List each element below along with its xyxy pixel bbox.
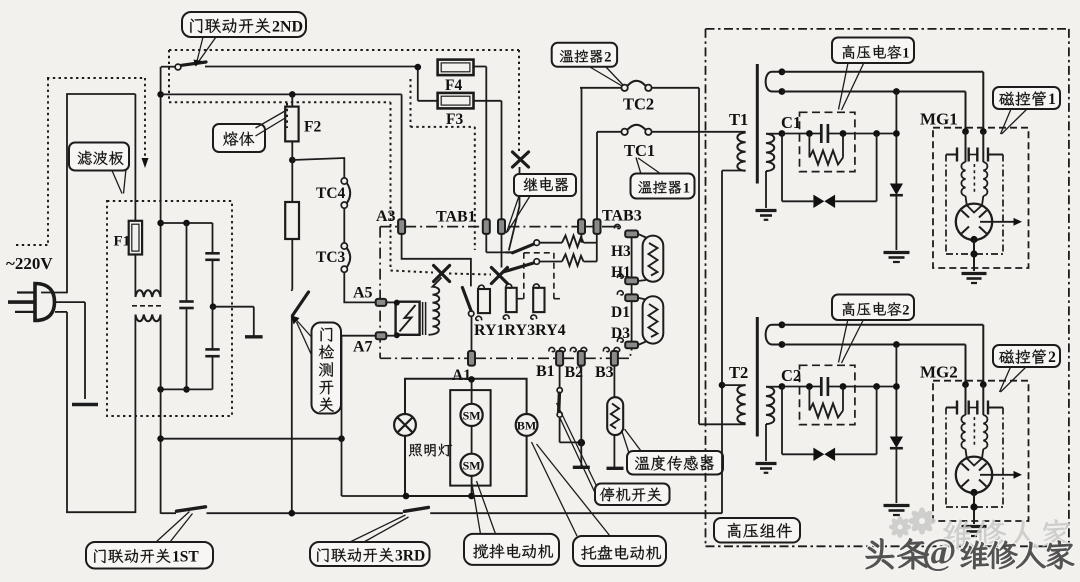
ground chassis plug <box>72 403 98 407</box>
node junction A7 return <box>338 435 345 442</box>
wire filter internal top <box>161 222 213 224</box>
stirrer motor inner box <box>450 390 490 486</box>
high voltage assembly box 高压组件 <box>705 29 707 546</box>
node junction door-detect rail <box>289 510 296 517</box>
svg-text:T1: T1 <box>729 110 748 129</box>
capacitor filter right bottom <box>212 307 214 350</box>
node junction box bottom mid <box>468 493 475 500</box>
svg-text:MG2: MG2 <box>920 363 958 382</box>
wire TAB3 to H3 <box>602 226 619 228</box>
svg-text:RY1RY3RY4: RY1RY3RY4 <box>474 322 566 339</box>
door interlock switch 3RD <box>405 507 429 511</box>
transformer T2 core <box>756 317 759 437</box>
dotted door linkage drop to relay connector <box>518 50 520 151</box>
label callout 门联动开关2ND <box>182 12 306 37</box>
wire filter midpoint to ground <box>213 306 254 308</box>
transformer T2 secondary winding <box>766 387 774 424</box>
bottom rail right <box>430 512 722 514</box>
filament heater coil MG2 <box>961 415 965 449</box>
magnetron MG1 anode <box>956 204 992 240</box>
wire A3 to interlock relay switch <box>402 234 471 287</box>
wire A3 feed from top <box>401 94 403 219</box>
bleed resistor C2 <box>808 387 810 411</box>
svg-text:TAB1: TAB1 <box>436 209 476 226</box>
label callout 继电器 relay <box>506 196 519 233</box>
node T2 secondary hot <box>779 383 786 390</box>
terminal pin A3 <box>398 219 405 234</box>
dashed box relay contact group <box>524 252 554 254</box>
fuse F3 <box>438 93 474 109</box>
wire SM2 to box bottom <box>471 476 473 496</box>
lamp 照明灯 <box>394 414 416 436</box>
svg-text:TAB3: TAB3 <box>602 208 642 225</box>
svg-text:A1: A1 <box>452 367 471 384</box>
terminal pin B1 <box>549 347 555 351</box>
svg-text:A5: A5 <box>353 285 373 302</box>
fuse F4 <box>438 60 474 76</box>
terminal pin B2 <box>570 347 576 351</box>
wire T1 secondary to ground <box>765 171 767 208</box>
node diode tap 1 <box>893 88 900 95</box>
svg-text:B2: B2 <box>565 364 584 381</box>
node junction F4 <box>417 67 419 101</box>
label callout 高压电容1 <box>839 63 849 110</box>
transformer T1 core <box>756 64 759 184</box>
arrow MG2 output <box>980 474 1014 476</box>
wire L top run <box>66 93 135 95</box>
plug prong N <box>15 311 36 313</box>
thermostat TC2 <box>621 85 627 91</box>
terminal lug H1 <box>617 274 623 278</box>
wire bottom U to filter <box>66 511 135 513</box>
wire filament second line MG1 <box>782 91 966 93</box>
wire F1 to choke <box>134 255 136 297</box>
heater loop D <box>643 296 664 343</box>
transformer T1 secondary winding <box>766 134 774 171</box>
door interlock switch 2ND <box>175 64 181 70</box>
relay RY4 <box>533 284 539 288</box>
svg-text:A3: A3 <box>376 208 396 225</box>
ground MG2 <box>962 525 987 528</box>
terminal pins TAB1 <box>483 219 490 234</box>
svg-text:H1: H1 <box>611 264 631 281</box>
terminal pin A1 <box>468 351 475 366</box>
wire cutout to door-detect switch <box>291 239 293 290</box>
label callout 温控器2 <box>552 43 617 67</box>
varistor bowtie 2 <box>781 387 783 455</box>
node coil top <box>394 300 400 306</box>
label callout 托盘电动机 tray motor <box>532 442 578 536</box>
ground HV diode 1 <box>884 251 910 254</box>
dotted door linkage top <box>169 49 519 51</box>
wire MG1 cathode to ground <box>970 236 977 243</box>
ground MG1 <box>962 272 987 275</box>
label callout 磁控管1 <box>1001 109 1012 134</box>
svg-text:B1: B1 <box>536 363 555 380</box>
label callout 温控器1 <box>636 158 641 175</box>
label callout 停机开关 stop switch <box>557 403 598 487</box>
wire plug N down <box>55 311 67 313</box>
dotted linkage drop to X1 <box>390 102 392 269</box>
plug prong E <box>8 300 36 304</box>
wire F2 branch to TC4 <box>292 158 344 178</box>
node diode tap 2 <box>893 341 900 348</box>
chain line terminal row A3-TAB1-TAB3 <box>380 226 398 228</box>
wire H1 to D1 <box>631 284 633 294</box>
capacitor filter right top <box>212 223 214 253</box>
watermark light flower icons <box>889 507 936 538</box>
node junction box bottom left <box>403 493 410 500</box>
terminal lug D1 <box>617 291 623 295</box>
wire rail up to transformers return <box>721 171 723 514</box>
relay contact lower blade <box>503 263 534 272</box>
svg-text:H3: H3 <box>611 243 631 260</box>
wire TC1 right to T1 primary <box>652 131 746 133</box>
wire filament top line MG2 <box>782 324 983 326</box>
svg-text:D1: D1 <box>611 304 630 321</box>
label callout 熔体 fuse <box>213 124 265 152</box>
svg-text:1: 1 <box>902 45 909 61</box>
filament heater coil MG1 <box>961 162 965 196</box>
dotted linkage branch <box>410 79 412 127</box>
transformer T2 primary winding <box>737 385 745 423</box>
HV capacitor C1 plates <box>820 124 823 143</box>
capacitor filter mid branch <box>183 220 190 227</box>
svg-text:F2: F2 <box>304 119 321 136</box>
wire stop switch to B2 line <box>560 441 582 443</box>
label callout 搅拌电动机 stirrer motor <box>472 481 481 534</box>
label callout 滤波板 filter board <box>69 143 129 171</box>
dotted linkage second run <box>169 101 391 103</box>
HV diode D1 <box>895 92 897 184</box>
filament winding loop T2 <box>766 325 782 345</box>
magnetron MG1 inner shield box <box>945 155 947 255</box>
node filter cap midpoint <box>210 303 217 310</box>
node T1 secondary hot <box>779 130 786 137</box>
wire F3 out to TAB1 <box>474 100 502 102</box>
watermark dark 头条@维修人家 <box>866 532 1074 573</box>
wire return to motor box corner <box>342 495 406 497</box>
wire plug to L rail <box>41 292 67 294</box>
svg-text:TC3: TC3 <box>316 249 346 266</box>
svg-text:TC1: TC1 <box>624 141 655 160</box>
wire plug earth <box>53 301 85 303</box>
wire T2 secondary to ground <box>765 424 767 461</box>
wire choke right up to switch 2ND <box>160 67 162 297</box>
wire TC3 to pin A5 <box>344 272 376 302</box>
wire MG2 cathode to ground <box>970 489 977 496</box>
node junction filter internal top <box>157 220 164 227</box>
svg-text:1ST: 1ST <box>172 549 199 566</box>
svg-text:C2: C2 <box>781 366 801 385</box>
node junction A1 top <box>468 376 475 383</box>
wire TC2 right to T2 primary <box>652 87 699 89</box>
magnetron MG2 outer box <box>933 381 1029 521</box>
svg-text:SM: SM <box>463 458 481 472</box>
connector X1 <box>434 266 450 282</box>
wire filter internal bottom <box>161 388 213 390</box>
dotted linkage X1 to X2 <box>449 274 491 275</box>
terminal pin B3 <box>603 347 609 351</box>
ground chassis B2 <box>573 466 590 469</box>
wire TAB1 pin2 to X2 <box>501 234 503 268</box>
stop switch <box>559 366 561 388</box>
stirrer motor SM1 <box>461 404 483 426</box>
fuse F1 <box>134 94 136 221</box>
wire H3 to H1 <box>631 237 633 277</box>
feedthrough capacitors MG1 <box>956 148 958 162</box>
wire T2 feed <box>722 384 746 386</box>
temperature sensor <box>613 366 615 398</box>
wire D3 to chain <box>631 348 633 350</box>
wire to pin A1 <box>471 316 473 351</box>
magnetron MG2 filament terminals <box>962 381 969 388</box>
chain line down A5 A7 <box>379 227 381 359</box>
dotted mains lead-in line <box>16 244 48 246</box>
thermostat TC1 <box>621 129 627 135</box>
HV capacitor C1 dashed box <box>800 112 855 171</box>
terminal lug D3 <box>617 338 623 342</box>
filter board dotted box <box>107 201 232 416</box>
transformer T1 primary winding <box>737 133 745 171</box>
wire door-detect to bottom rail <box>291 316 293 514</box>
feedthrough capacitors MG2 <box>956 401 958 415</box>
wire 2ND switch to F4 junction <box>205 66 418 68</box>
winding upper <box>433 278 442 311</box>
wire TC1 left to TAB3 pin2 <box>597 131 621 133</box>
svg-text:BM: BM <box>517 418 536 432</box>
svg-text:2: 2 <box>1048 349 1056 366</box>
svg-text:A7: A7 <box>353 339 373 356</box>
svg-text:2: 2 <box>902 302 909 318</box>
svg-text:MG1: MG1 <box>920 110 958 129</box>
wire TC4 to TC3 <box>343 208 345 243</box>
fuse F2 fusible link <box>291 94 293 106</box>
ground T2 secondary <box>756 462 777 465</box>
node coil bottom <box>394 332 400 338</box>
bleed resistor C1 <box>808 134 810 158</box>
transformer core relay <box>422 302 424 335</box>
terminal pin A5 <box>376 299 387 306</box>
wire L rail up <box>66 94 68 293</box>
relay RY3 <box>506 284 512 288</box>
HV diode D2 <box>895 345 897 437</box>
node junction filter top <box>157 91 164 98</box>
connector X3 relay <box>513 152 529 167</box>
svg-text:D3: D3 <box>611 325 630 342</box>
svg-text:T2: T2 <box>729 363 748 382</box>
ground HV diode 2 <box>884 504 910 507</box>
label callout 磁控管2 <box>1000 366 1012 392</box>
varistor bowtie 1 <box>781 134 783 202</box>
magnetron MG1 filament terminals <box>962 128 969 135</box>
wire choke right down <box>160 315 162 514</box>
magnetron MG2 inner shield box <box>945 408 947 508</box>
wire T1 primary return <box>722 170 746 172</box>
ground chassis sensor <box>607 467 624 470</box>
label callout 高压电容2 <box>839 319 849 363</box>
wire filament top line MG1 <box>782 71 983 73</box>
door detect switch <box>291 290 293 292</box>
thermal cutout body <box>285 202 299 239</box>
wire SM1 to SM2 <box>471 426 473 454</box>
node junction lamp-relay return <box>157 435 164 442</box>
wire A7 return <box>342 335 376 337</box>
magnetron MG2 anode <box>956 457 992 493</box>
wire junction to F2 top <box>161 93 402 95</box>
wire TC2 left to TAB3 pin1 <box>580 87 621 89</box>
HV capacitor C2 dashed box <box>800 365 855 424</box>
label callout 温度传感器 temp sensor <box>622 430 630 453</box>
connector X2 <box>491 268 507 284</box>
label box 高压组件 HV assembly <box>714 518 800 543</box>
bottom rail mid <box>207 512 403 514</box>
plug prong L <box>17 291 36 293</box>
label callout 门检测开关 vertical <box>312 323 342 414</box>
HV capacitor C2 plates <box>820 377 823 396</box>
node junction T2 feed <box>719 382 726 389</box>
svg-text:@: @ <box>922 532 956 573</box>
door interlock switch 1ST <box>177 507 206 511</box>
HV capacitor C2 wire <box>782 386 821 388</box>
wire return run to relay coil branch <box>161 438 342 440</box>
svg-text:F1: F1 <box>114 234 131 250</box>
svg-text:TC2: TC2 <box>623 95 654 114</box>
winding lower <box>429 310 440 334</box>
wire D1 to D3 <box>631 301 633 342</box>
ground T1 secondary <box>756 209 777 212</box>
wire T2 secondary top <box>766 386 782 388</box>
terminal pins TAB3 <box>578 219 585 234</box>
svg-text:~220V: ~220V <box>6 254 53 273</box>
heater loop H <box>643 236 664 282</box>
wire T1 secondary top <box>766 133 782 135</box>
terminal lug H3 <box>625 231 638 238</box>
wire X3 to relay contacts <box>509 167 520 251</box>
node junction F2 bottom <box>289 157 296 164</box>
wire B2 to ground <box>580 366 582 466</box>
svg-text:F4: F4 <box>445 77 462 94</box>
label callout 门联动开关3RD <box>350 515 406 542</box>
svg-text:1: 1 <box>683 180 690 196</box>
svg-text:F3: F3 <box>446 111 463 128</box>
mains plug <box>35 284 55 321</box>
stirrer motor SM2 <box>461 454 483 476</box>
interlock monitor switch blade <box>462 288 471 311</box>
node junction B2 line <box>578 439 586 447</box>
svg-text:C1: C1 <box>781 113 801 132</box>
magnetron MG1 outer box <box>933 128 1029 268</box>
svg-text:1: 1 <box>1048 91 1056 108</box>
wire A1 to SM1 <box>471 379 473 404</box>
wire A5 to relay coil <box>386 301 397 303</box>
thermostat TC3 <box>341 243 347 249</box>
ground chassis filter <box>245 335 263 338</box>
watermark light 维修人家 <box>943 520 1071 550</box>
wire lower contact to TAB3 <box>540 261 563 263</box>
tray motor BM <box>516 414 538 436</box>
thermostat TC4 <box>341 178 347 184</box>
filament winding loop T1 <box>766 72 782 92</box>
arrow MG1 output <box>980 221 1014 223</box>
chain line A1 B1 row <box>380 357 468 359</box>
svg-text:B3: B3 <box>595 364 614 381</box>
relay RY1 <box>478 285 484 289</box>
wire F4 out to TAB1 <box>474 66 487 68</box>
common-mode choke windings <box>135 290 160 297</box>
wire TAB1 pin1 to upper contact <box>485 234 487 253</box>
label callout 门联动开关1ST <box>156 512 190 543</box>
wire filament second line MG2 <box>782 344 966 346</box>
svg-text:SM: SM <box>463 408 481 422</box>
svg-text:3RD: 3RD <box>395 548 425 565</box>
bottom rail left <box>161 512 176 514</box>
svg-text:2: 2 <box>604 49 611 65</box>
HV capacitor C1 wire <box>782 133 821 135</box>
motor assembly box <box>405 379 527 414</box>
svg-text:TC4: TC4 <box>316 185 346 202</box>
svg-text:2ND: 2ND <box>272 19 303 36</box>
relay contact upper <box>506 251 514 253</box>
terminal pin A7 <box>376 332 387 339</box>
node junction F2 top <box>289 91 296 98</box>
wire upper contact to TAB3 <box>540 242 563 244</box>
relay coil RY2 box <box>396 302 420 335</box>
